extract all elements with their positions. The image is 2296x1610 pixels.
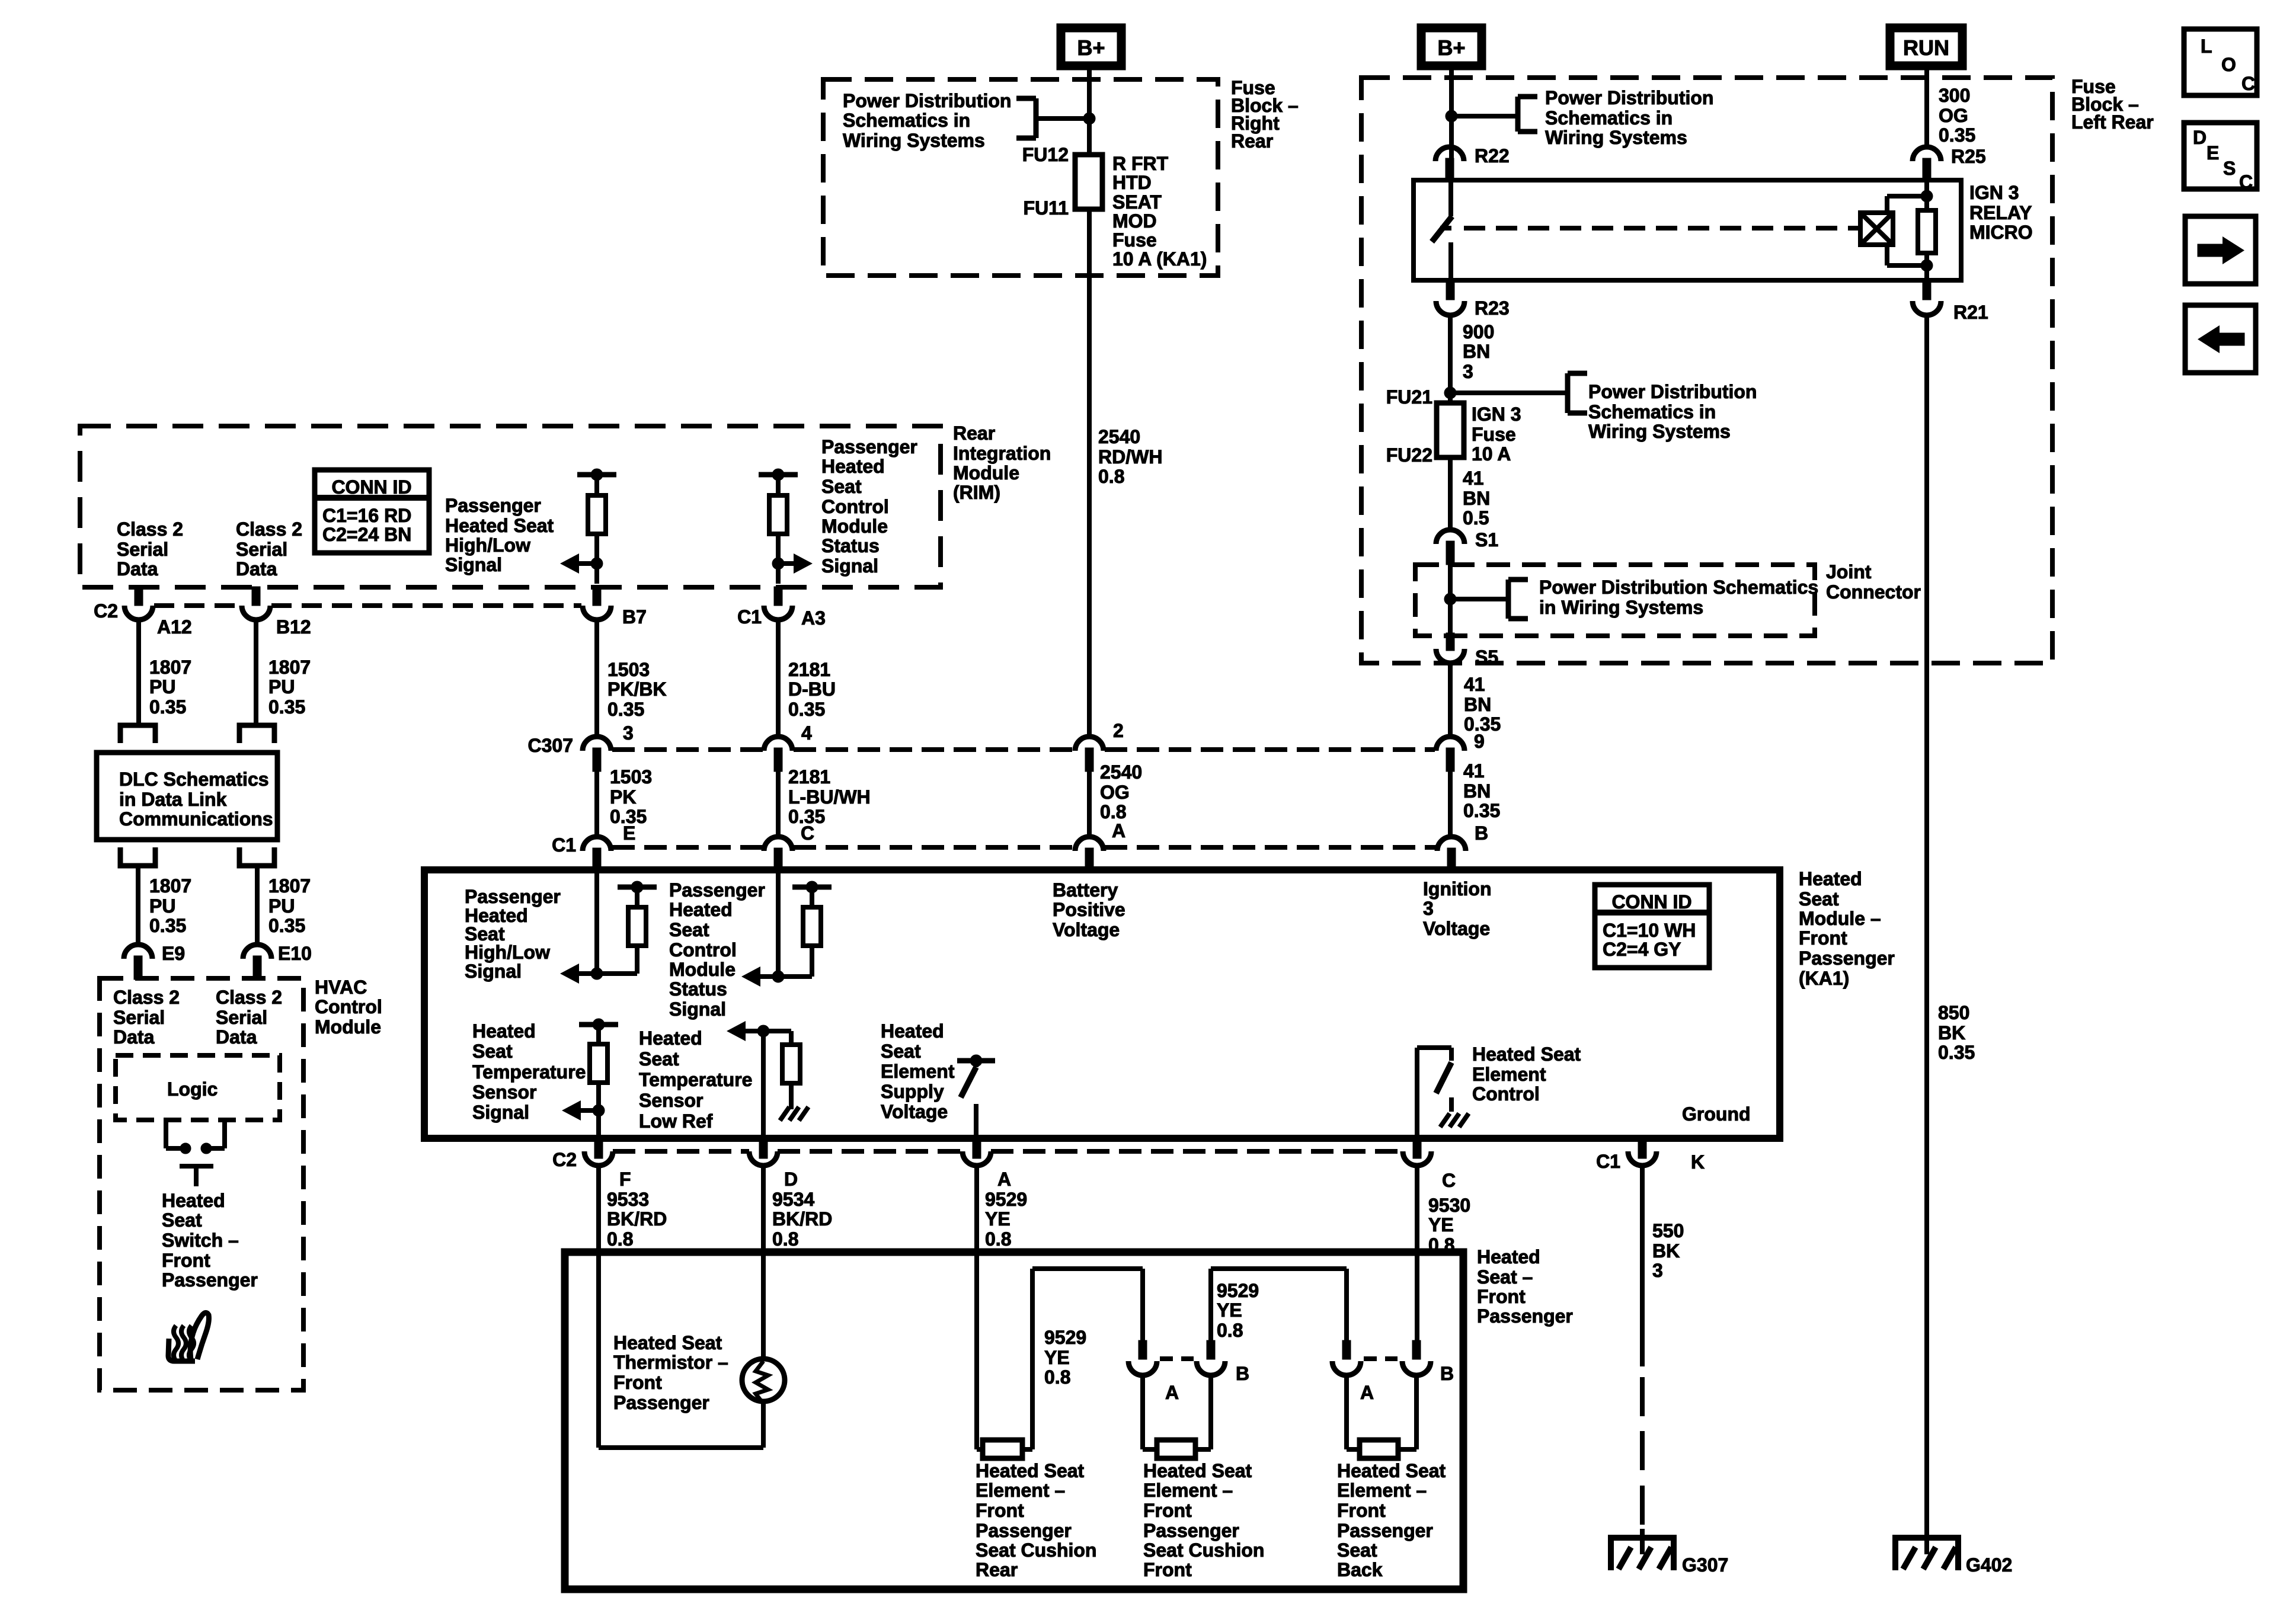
svg-text:Fuse: Fuse [1112,229,1157,251]
svg-text:C1=10 WH: C1=10 WH [1603,920,1696,941]
svg-text:9529: 9529 [1217,1280,1259,1301]
svg-text:1503: 1503 [610,766,652,788]
svg-text:RUN: RUN [1903,36,1949,60]
svg-text:Serial: Serial [117,539,168,560]
svg-text:L-BU/WH: L-BU/WH [788,786,871,808]
svg-text:Class 2: Class 2 [236,518,302,540]
svg-text:0.35: 0.35 [788,699,825,720]
svg-text:Class 2: Class 2 [113,987,180,1008]
svg-text:Ignition: Ignition [1423,878,1492,900]
svg-text:Module: Module [953,462,1019,484]
svg-text:G307: G307 [1682,1554,1728,1576]
svg-text:Seat: Seat [472,1041,513,1062]
svg-text:C1=16 RD: C1=16 RD [322,505,411,526]
svg-text:E9: E9 [162,943,185,964]
svg-text:850: 850 [1938,1002,1969,1023]
svg-text:PK/BK: PK/BK [607,678,667,700]
svg-text:0.35: 0.35 [1463,800,1500,821]
svg-text:Control: Control [669,939,737,961]
svg-text:1503: 1503 [607,659,650,680]
svg-text:3: 3 [1423,898,1434,919]
svg-text:Serial: Serial [236,539,287,560]
svg-text:Thermistor –: Thermistor – [613,1352,728,1373]
svg-text:0.8: 0.8 [1217,1320,1243,1341]
svg-text:Left Rear: Left Rear [2071,111,2154,133]
svg-text:C2=4 GY: C2=4 GY [1603,939,1681,960]
svg-text:Passenger: Passenger [669,879,765,901]
svg-text:High/Low: High/Low [445,534,530,556]
svg-text:Front: Front [613,1372,662,1393]
svg-text:Back: Back [1337,1559,1383,1580]
svg-text:Heated Seat: Heated Seat [1143,1460,1252,1481]
svg-text:A: A [1165,1382,1179,1403]
svg-text:Element –: Element – [1143,1480,1233,1501]
svg-text:1807: 1807 [149,657,191,678]
svg-text:Logic: Logic [167,1078,218,1100]
svg-text:B+: B+ [1437,36,1465,60]
svg-text:PU: PU [268,895,295,917]
svg-text:FU11: FU11 [1024,197,1069,219]
svg-text:Power Distribution: Power Distribution [1588,381,1757,402]
svg-text:9529: 9529 [985,1189,1027,1210]
svg-text:Control: Control [315,996,382,1017]
svg-text:900: 900 [1463,321,1494,343]
svg-text:0.8: 0.8 [607,1228,633,1250]
svg-text:Heated: Heated [639,1028,702,1049]
svg-text:4: 4 [801,722,812,744]
svg-text:Serial: Serial [216,1007,267,1028]
svg-text:9533: 9533 [607,1189,649,1210]
svg-text:BN: BN [1463,488,1490,509]
svg-text:Class 2: Class 2 [216,987,282,1008]
svg-text:1807: 1807 [149,875,191,897]
svg-text:Rear: Rear [976,1559,1018,1580]
svg-text:Element –: Element – [1337,1480,1427,1501]
svg-text:Seat –: Seat – [1477,1266,1533,1288]
svg-text:10 A: 10 A [1472,443,1511,465]
svg-text:BN: BN [1464,694,1491,715]
svg-text:Temperature: Temperature [472,1061,586,1083]
svg-text:3: 3 [1652,1260,1663,1281]
svg-text:in Data Link: in Data Link [119,789,227,810]
svg-text:2540: 2540 [1098,426,1140,447]
svg-text:D: D [784,1169,798,1190]
svg-text:Joint: Joint [1826,561,1872,582]
svg-text:IGN 3: IGN 3 [1969,182,2019,203]
svg-text:Voltage: Voltage [881,1101,948,1122]
svg-text:YE: YE [1217,1299,1242,1321]
svg-text:Signal: Signal [445,554,502,575]
svg-text:CONN ID: CONN ID [331,476,411,498]
svg-text:Integration: Integration [953,443,1051,464]
svg-text:Heated: Heated [821,456,885,477]
svg-text:C1: C1 [737,606,762,628]
svg-text:0.8: 0.8 [1098,466,1124,487]
svg-text:Sensor: Sensor [639,1090,703,1111]
svg-text:A3: A3 [801,607,826,629]
svg-text:0.8: 0.8 [772,1228,798,1250]
svg-text:SEAT: SEAT [1112,191,1162,213]
svg-text:D-BU: D-BU [788,678,836,700]
svg-text:9529: 9529 [1044,1327,1086,1348]
svg-text:Element –: Element – [976,1480,1065,1501]
svg-text:Heated: Heated [881,1020,944,1042]
svg-text:A: A [1360,1382,1374,1403]
svg-text:Rear: Rear [953,422,995,444]
svg-text:HVAC: HVAC [315,977,367,998]
svg-text:41: 41 [1463,760,1485,782]
svg-text:Communications: Communications [119,808,273,830]
svg-text:C: C [801,822,814,844]
svg-text:Schematics in: Schematics in [843,110,970,131]
svg-text:E: E [623,822,635,844]
svg-text:PU: PU [149,895,175,917]
svg-text:Fuse: Fuse [1472,424,1516,445]
svg-text:Passenger: Passenger [1337,1520,1433,1541]
svg-text:Heated Seat: Heated Seat [445,515,554,536]
svg-text:BN: BN [1463,341,1490,362]
svg-text:C307: C307 [528,735,574,756]
svg-text:Seat: Seat [639,1048,679,1070]
svg-text:Temperature: Temperature [639,1069,752,1090]
svg-text:Passenger: Passenger [1143,1520,1239,1541]
svg-text:MOD: MOD [1112,210,1157,232]
svg-text:Passenger: Passenger [1799,948,1895,969]
svg-text:Supply: Supply [881,1081,944,1102]
svg-text:Seat Cushion: Seat Cushion [976,1539,1096,1561]
svg-text:Positive: Positive [1053,899,1125,920]
svg-text:Seat: Seat [162,1209,202,1231]
svg-text:C1: C1 [552,834,576,856]
svg-text:Front: Front [976,1500,1024,1521]
svg-text:3: 3 [1463,361,1473,382]
svg-text:A: A [997,1169,1011,1190]
svg-text:Power Distribution Schematics: Power Distribution Schematics [1539,577,1818,598]
svg-text:R23: R23 [1475,297,1510,319]
svg-text:Power Distribution: Power Distribution [1545,87,1713,108]
svg-text:2181: 2181 [788,766,830,788]
svg-text:Seat: Seat [881,1041,921,1062]
svg-text:Heated Seat: Heated Seat [1337,1460,1446,1481]
svg-text:B+: B+ [1077,36,1105,60]
svg-text:BN: BN [1463,780,1491,802]
svg-text:C: C [2241,73,2255,94]
svg-text:Power Distribution: Power Distribution [843,90,1011,111]
svg-text:Heated: Heated [472,1020,536,1042]
svg-text:0.8: 0.8 [985,1228,1011,1250]
svg-text:(RIM): (RIM) [953,482,1000,503]
svg-text:(KA1): (KA1) [1799,968,1849,989]
svg-text:OG: OG [1939,105,1968,126]
svg-text:MICRO: MICRO [1969,222,2033,243]
svg-text:S: S [2223,158,2236,179]
svg-text:Battery: Battery [1053,879,1118,901]
svg-text:Module: Module [821,516,888,537]
svg-text:Data: Data [113,1026,155,1048]
svg-text:C1: C1 [1596,1151,1620,1172]
svg-text:Serial: Serial [113,1007,165,1028]
svg-text:RELAY: RELAY [1969,202,2032,223]
svg-text:Module: Module [669,959,736,980]
svg-text:Signal: Signal [472,1102,529,1123]
svg-text:S5: S5 [1475,646,1498,668]
svg-text:BK/RD: BK/RD [607,1208,667,1230]
svg-text:R22: R22 [1475,145,1510,167]
svg-text:Heated: Heated [1799,868,1862,889]
svg-text:Status: Status [669,978,727,1000]
svg-text:Data: Data [117,558,158,580]
svg-text:Seat: Seat [1799,888,1839,910]
svg-text:2181: 2181 [788,659,830,680]
svg-text:L: L [2201,36,2212,57]
svg-text:E10: E10 [278,943,312,964]
svg-text:R FRT: R FRT [1112,153,1169,174]
svg-text:B7: B7 [622,606,647,628]
svg-text:Rear: Rear [1231,130,1273,152]
svg-text:PK: PK [610,786,636,808]
svg-text:B12: B12 [276,616,311,638]
svg-text:41: 41 [1463,468,1484,489]
svg-text:R25: R25 [1951,146,1986,167]
svg-text:300: 300 [1939,85,1970,106]
svg-text:A12: A12 [157,616,192,638]
svg-text:RD/WH: RD/WH [1098,446,1162,468]
svg-text:C2: C2 [552,1149,577,1170]
svg-text:Wiring Systems: Wiring Systems [1545,127,1687,148]
svg-text:Element: Element [1472,1064,1546,1085]
svg-text:Passenger: Passenger [445,495,541,516]
svg-text:3: 3 [623,722,634,744]
svg-text:9530: 9530 [1428,1195,1470,1216]
svg-text:0.8: 0.8 [1044,1366,1070,1388]
svg-text:Data: Data [236,558,277,580]
svg-text:Passenger: Passenger [821,436,917,457]
svg-text:in Wiring Systems: in Wiring Systems [1539,597,1703,618]
svg-text:S1: S1 [1475,529,1498,550]
svg-text:Element: Element [881,1061,955,1082]
svg-text:1807: 1807 [268,657,311,678]
svg-text:0.8: 0.8 [1100,801,1126,822]
svg-text:Schematics in: Schematics in [1545,107,1673,129]
svg-text:K: K [1691,1151,1705,1173]
svg-text:E: E [2207,142,2219,164]
svg-text:Signal: Signal [821,555,878,577]
svg-text:0.35: 0.35 [268,915,305,936]
svg-text:YE: YE [985,1208,1011,1230]
svg-text:HTD: HTD [1112,172,1152,193]
svg-text:Status: Status [821,535,880,556]
svg-text:550: 550 [1652,1220,1684,1241]
svg-text:Front: Front [1477,1286,1526,1307]
svg-text:Data: Data [216,1026,257,1048]
svg-text:B: B [1475,822,1488,844]
svg-text:Voltage: Voltage [1423,918,1490,939]
svg-text:A: A [1112,820,1125,841]
svg-text:Passenger: Passenger [613,1392,709,1413]
svg-text:0.5: 0.5 [1463,507,1489,529]
svg-text:C2: C2 [94,600,118,622]
svg-text:Heated Seat: Heated Seat [613,1332,722,1353]
svg-text:Sensor: Sensor [472,1081,536,1103]
svg-text:1807: 1807 [268,875,311,897]
svg-text:Front: Front [162,1250,210,1271]
svg-text:10 A (KA1): 10 A (KA1) [1112,248,1207,270]
svg-text:0.35: 0.35 [149,915,186,936]
svg-text:Low Ref: Low Ref [639,1110,713,1132]
svg-text:9: 9 [1474,731,1485,752]
svg-text:2: 2 [1113,720,1124,741]
svg-text:Switch –: Switch – [162,1230,239,1251]
svg-text:Signal: Signal [669,998,726,1020]
svg-text:High/Low: High/Low [465,942,550,963]
svg-text:Schematics in: Schematics in [1588,401,1716,422]
svg-text:FU22: FU22 [1386,444,1432,466]
svg-text:BK: BK [1938,1022,1965,1044]
svg-text:YE: YE [1428,1214,1454,1235]
svg-text:0.35: 0.35 [1939,124,1975,146]
svg-text:Wiring Systems: Wiring Systems [1588,421,1731,442]
svg-text:Seat: Seat [1337,1539,1377,1561]
svg-text:Front: Front [1143,1559,1192,1580]
svg-text:G402: G402 [1966,1554,2012,1576]
svg-text:Wiring Systems: Wiring Systems [843,130,985,151]
svg-text:0.35: 0.35 [1938,1042,1975,1063]
svg-text:Front: Front [1143,1500,1192,1521]
svg-text:Passenger: Passenger [465,886,561,907]
svg-text:F: F [619,1169,631,1190]
svg-text:BK: BK [1652,1240,1680,1262]
svg-text:Signal: Signal [465,961,522,982]
svg-text:Passenger: Passenger [1477,1305,1573,1327]
svg-text:Connector: Connector [1826,581,1921,603]
svg-text:C2=24 BN: C2=24 BN [322,524,411,545]
svg-text:PU: PU [149,676,175,697]
svg-text:OG: OG [1100,782,1130,803]
svg-text:Front: Front [1799,927,1847,949]
svg-text:0.35: 0.35 [149,696,186,718]
svg-text:C: C [2239,171,2253,193]
svg-text:2540: 2540 [1100,761,1142,783]
svg-text:YE: YE [1044,1347,1070,1368]
svg-text:R21: R21 [1953,302,1988,323]
svg-text:DLC Schematics: DLC Schematics [119,769,269,790]
svg-text:41: 41 [1464,674,1485,695]
svg-text:FU12: FU12 [1022,144,1069,165]
svg-text:B: B [1440,1363,1454,1384]
svg-text:Control: Control [1472,1083,1540,1105]
svg-text:0.35: 0.35 [607,699,644,720]
svg-text:Heated Seat: Heated Seat [1472,1044,1581,1065]
svg-text:Heated: Heated [162,1190,225,1211]
svg-text:Seat: Seat [669,919,709,940]
svg-text:Passenger: Passenger [162,1269,258,1291]
svg-text:Seat Cushion: Seat Cushion [1143,1539,1264,1561]
svg-text:Front: Front [1337,1500,1386,1521]
svg-text:IGN 3: IGN 3 [1472,404,1521,425]
svg-text:FU21: FU21 [1386,386,1432,408]
svg-text:0.35: 0.35 [268,696,305,718]
svg-text:Ground: Ground [1682,1103,1751,1125]
svg-text:PU: PU [268,676,295,697]
svg-text:Voltage: Voltage [1053,919,1120,940]
svg-text:Module –: Module – [1799,908,1881,929]
svg-text:CONN ID: CONN ID [1611,891,1691,913]
svg-text:C: C [1442,1170,1456,1191]
svg-text:Heated: Heated [669,899,733,920]
svg-text:O: O [2221,54,2236,75]
svg-text:Heated: Heated [1477,1246,1540,1267]
svg-text:B: B [1236,1363,1249,1384]
svg-text:Passenger: Passenger [976,1520,1072,1541]
svg-text:Class 2: Class 2 [117,518,183,540]
svg-text:D: D [2193,127,2207,148]
svg-text:Control: Control [821,496,889,517]
svg-text:Heated Seat: Heated Seat [976,1460,1085,1481]
svg-text:Seat: Seat [821,476,862,497]
svg-text:9534: 9534 [772,1189,814,1210]
svg-text:BK/RD: BK/RD [772,1208,832,1230]
svg-text:Module: Module [315,1016,381,1038]
